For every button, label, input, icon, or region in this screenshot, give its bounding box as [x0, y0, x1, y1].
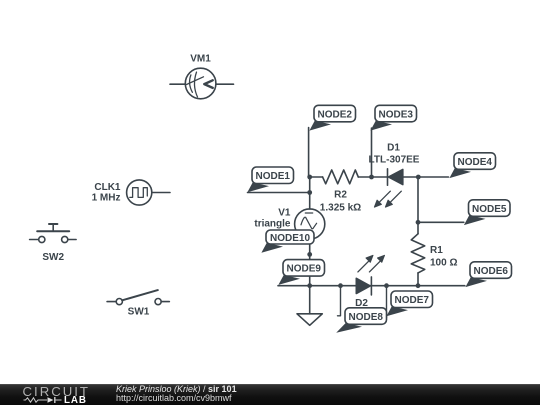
- footer url: [116, 393, 232, 403]
- svg-text:triangle: triangle: [254, 219, 291, 230]
- svg-text:100 Ω: 100 Ω: [430, 258, 457, 269]
- CircuitLab logo: [0, 384, 110, 405]
- svg-text:NODE6: NODE6: [474, 266, 509, 277]
- node NODE1: [247, 167, 293, 192]
- svg-text:SW2: SW2: [42, 252, 64, 263]
- svg-text:NODE1: NODE1: [256, 171, 291, 182]
- wire V1 top: [309, 177, 311, 209]
- svg-text:SW1: SW1: [128, 307, 150, 318]
- node NODE3: [370, 105, 416, 130]
- svg-text:NODE8: NODE8: [349, 312, 384, 323]
- junction node at NODE1 stub: [307, 190, 312, 195]
- junction node at D2 left: [338, 283, 343, 288]
- svg-text:NODE7: NODE7: [395, 295, 430, 306]
- junction node at R2 left: [307, 175, 312, 180]
- wire R1 top: [417, 177, 419, 234]
- node NODE8: [336, 308, 386, 333]
- svg-text:NODE5: NODE5: [472, 204, 507, 215]
- junction node at R1 bottom: [416, 283, 421, 288]
- svg-text:NODE4: NODE4: [458, 157, 493, 168]
- toggle switch SW1: [107, 290, 169, 317]
- node NODE10: [261, 230, 314, 253]
- footer bar: [0, 384, 540, 405]
- voltmeter VM1: [170, 54, 234, 99]
- svg-text:NODE3: NODE3: [379, 109, 414, 120]
- resistor R1: [411, 234, 457, 286]
- svg-text:NODE10: NODE10: [270, 233, 310, 244]
- wire V1 bottom: [309, 239, 311, 286]
- LED D1: [369, 143, 420, 208]
- svg-text:D1: D1: [387, 143, 400, 154]
- svg-text:NODE9: NODE9: [287, 264, 322, 275]
- wire NODE3 stub: [371, 128, 373, 177]
- wire D1 to NODE4: [418, 176, 448, 178]
- node NODE5: [464, 200, 510, 225]
- node NODE9: [278, 260, 324, 285]
- svg-text:V1: V1: [278, 208, 291, 219]
- svg-text:LAB: LAB: [64, 395, 87, 405]
- junction node at NODE10: [307, 252, 312, 257]
- wire NODE1 stub: [248, 192, 310, 194]
- ground: [297, 286, 322, 326]
- svg-text:NODE2: NODE2: [318, 109, 353, 120]
- wire NODE5 branch: [418, 221, 464, 223]
- node NODE2: [309, 105, 355, 130]
- junction node at D1 right: [416, 175, 421, 180]
- node NODE6: [465, 262, 511, 287]
- svg-text:R2: R2: [334, 190, 347, 201]
- svg-text:R1: R1: [430, 245, 443, 256]
- voltage source V1: [254, 208, 324, 240]
- pushbutton switch SW2: [30, 224, 77, 263]
- resistor R2: [310, 170, 372, 214]
- node NODE4: [449, 153, 495, 178]
- LED D2: [355, 255, 384, 309]
- junction node at D2 right: [384, 283, 389, 288]
- junction node at ground: [307, 283, 312, 288]
- wire NODE7 stub: [386, 286, 388, 318]
- svg-text:1 MHz: 1 MHz: [92, 193, 121, 204]
- wire bottom rail: [278, 285, 465, 287]
- footer credit line: [116, 384, 237, 394]
- svg-text:LTL-307EE: LTL-307EE: [369, 155, 420, 166]
- clock source CLK1: [92, 180, 170, 205]
- svg-text:CLK1: CLK1: [94, 182, 121, 193]
- junction node at NODE5 branch: [416, 220, 421, 225]
- node NODE7: [386, 291, 432, 316]
- junction node at NODE3 stub: [369, 175, 374, 180]
- wire NODE2 stub: [308, 128, 310, 178]
- svg-text:1.325 kΩ: 1.325 kΩ: [320, 203, 361, 214]
- node flags: [247, 105, 511, 332]
- wire NODE8 stub: [338, 286, 341, 316]
- svg-text:VM1: VM1: [190, 54, 211, 65]
